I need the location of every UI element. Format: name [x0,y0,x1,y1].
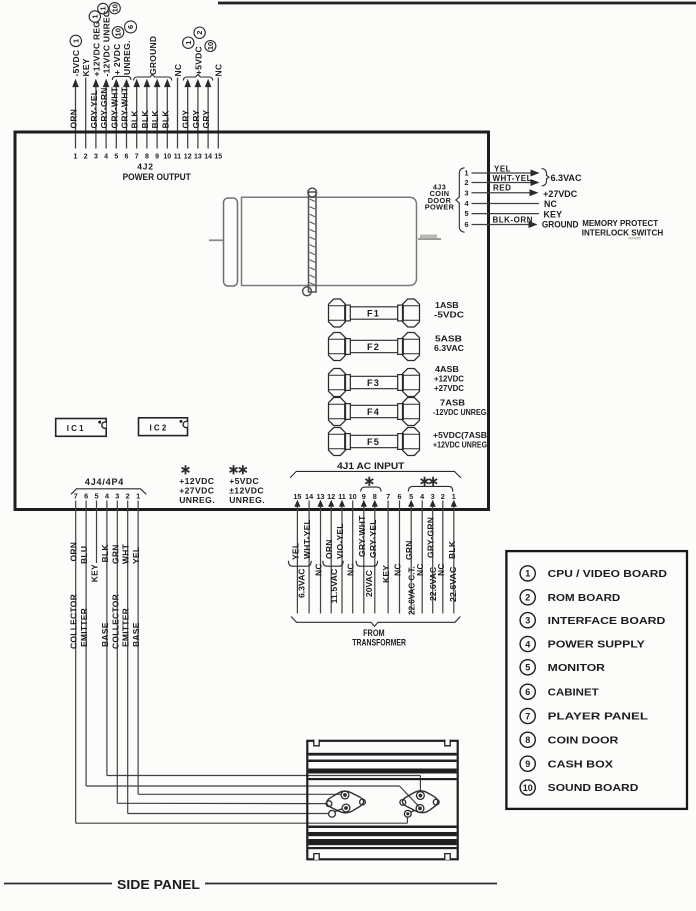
svg-text:5: 5 [525,663,530,673]
wire 4J4 pin 2 WHT EMITTER to Q2 emitter lug [128,813,329,815]
capacitor C1 body [242,197,417,285]
4J4 pin 5 wire vertical [96,501,98,564]
svg-text:9: 9 [155,154,159,161]
svg-text:VIO-YEL: VIO-YEL [335,523,345,559]
svg-text:YEL: YEL [494,164,511,173]
svg-text:GRY-WHT: GRY-WHT [357,515,367,557]
svg-text:NC: NC [415,563,425,576]
svg-text:ORN: ORN [324,539,334,559]
svg-text:BLK: BLK [447,540,457,559]
fuse F4 value label [433,398,488,417]
svg-text:6.3VAC: 6.3VAC [551,173,583,183]
footnote * +12VDC +27VDC UNREG [179,465,215,505]
4J1 pin 9 wire [361,500,367,507]
svg-text:GRY-YEL: GRY-YEL [89,90,99,129]
svg-text:10: 10 [523,783,533,793]
svg-text:NC: NC [393,563,403,576]
svg-text:SIDE PANEL: SIDE PANEL [117,878,200,892]
wire 4J4 pin 3 GRN COLLECTOR to Q2 collector [117,802,326,804]
svg-text:GRY: GRY [181,110,191,129]
4J3 pin 5 wire KEY [472,213,540,215]
4J3 pin 2 wire WHT-YEL [472,182,531,184]
svg-text:1: 1 [464,169,468,178]
power supply enclosure box [15,132,489,510]
transistor Q1 base pin [417,792,425,800]
svg-text:ORN: ORN [69,542,79,562]
connector 4J2 wires and arrows [72,78,218,149]
legend item 7 PLAYER PANEL [520,708,648,723]
legend item 4 POWER SUPPLY [520,636,645,651]
4J4 pin 2 wire vertical [127,501,129,814]
svg-text:+12VDC REG: +12VDC REG [91,21,101,77]
svg-text:14: 14 [204,154,212,161]
svg-text:7: 7 [135,154,139,161]
page top edge rule [218,2,696,5]
svg-text:GRY-YEL: GRY-YEL [368,519,378,558]
4J4 pin 6 wire vertical [85,501,87,787]
svg-text:NC: NC [214,64,224,77]
svg-text:UNREG.: UNREG. [122,40,132,75]
4J1 double star group pins 5-1 [424,477,426,486]
fuse F5 value label [433,430,490,449]
svg-text:4: 4 [420,492,425,501]
4J1 pin 1 wire [451,500,457,507]
svg-text:-12VDC UNREG.: -12VDC UNREG. [433,407,488,417]
svg-text:22.6VAC: 22.6VAC [429,567,438,601]
fuse F1 [329,299,420,327]
svg-text:1: 1 [525,569,530,579]
svg-text:-5VDC: -5VDC [71,50,81,77]
legend item 9 CASH BOX [520,756,613,771]
scan artifact mark right side [628,237,641,239]
svg-text:INTERFACE BOARD: INTERFACE BOARD [548,616,666,627]
svg-text:+27VDC: +27VDC [434,383,464,393]
4J1 6.3VAC bracket pins 15-14 [288,561,311,566]
svg-text:KEY: KEY [544,210,563,220]
4J2 node +5VDC circled 1 [183,37,194,48]
4J4 wire colour labels [69,542,141,582]
svg-text:1: 1 [71,39,80,43]
4J2 bracket pins 12-14 [183,75,212,81]
fuse F3 [329,369,420,397]
svg-text:GROUND: GROUND [148,36,158,75]
svg-text:6: 6 [126,25,135,29]
IC1 box [56,419,106,437]
4J1 pin 14 wire [308,501,310,614]
svg-text:WHT-YEL: WHT-YEL [493,174,533,183]
transistor Q2 emitter lug [329,810,336,817]
svg-text:POWER: POWER [425,203,455,212]
svg-text:BLK: BLK [140,110,150,129]
legend item 2 ROM BOARD [520,590,620,605]
svg-text:INTERLOCK SWITCH: INTERLOCK SWITCH [582,228,664,238]
4J1 wire colour labels [290,515,456,583]
4J1 pin 7 wire [387,501,389,614]
svg-text:2: 2 [195,31,204,35]
4J1 pin numbers 15-1 [293,492,455,501]
footnote ** +5VDC ±12VDC UNREG [229,465,265,505]
svg-text:NC: NC [346,563,356,576]
4J2 node +2VDC circled 10 [112,27,124,39]
svg-text:22.6VAC C.T.: 22.6VAC C.T. [408,566,417,615]
4J1 20VAC bracket pins 9-8 [356,561,378,566]
4J4 transistor function labels [69,594,141,649]
svg-text:+5VDC: +5VDC [193,46,203,75]
4J2 node -12VDC UNREG circled 1 [98,3,109,14]
4J1 pin 11 wire [339,500,345,507]
4J4/4P4 bracket [71,489,146,495]
4J3 pin 6 wire BLK-ORN to GROUND [472,224,529,226]
svg-text:5: 5 [114,154,118,161]
capacitor C1 left lead [209,239,224,241]
svg-text:+27VDC: +27VDC [543,189,578,199]
capacitor C1 right lead [418,238,441,240]
legend item 5 MONITOR [520,660,606,675]
4J2 node +5VDC circled 2 [194,27,205,38]
svg-text:CPU / VIDEO BOARD: CPU / VIDEO BOARD [548,569,667,580]
svg-text:22.6VAC: 22.6VAC [449,566,458,602]
svg-text:SOUND BOARD: SOUND BOARD [548,783,639,794]
4J2 node -12VDC UNREG circled 10 [109,3,120,14]
4J2 node +5VDC circled 10 [205,41,216,52]
svg-text:6.3VAC: 6.3VAC [298,568,307,598]
svg-text:F4: F4 [367,407,380,417]
svg-text:10: 10 [349,492,357,501]
svg-text:COIN DOOR: COIN DOOR [548,735,620,746]
legend box [506,551,687,809]
4J3 6.3VAC bracket and label [542,169,550,187]
svg-text:5: 5 [94,492,98,501]
svg-text:ROM BOARD: ROM BOARD [548,593,621,604]
svg-text:4J2: 4J2 [137,162,154,172]
svg-text:15: 15 [214,154,222,161]
svg-text:YEL: YEL [131,547,141,564]
svg-text:BLK-ORN: BLK-ORN [493,216,533,225]
svg-text:F1: F1 [367,308,380,318]
svg-text:POWER OUTPUT: POWER OUTPUT [123,172,191,182]
svg-text:TRANSFORMER: TRANSFORMER [352,637,406,647]
svg-text:POWER SUPPLY: POWER SUPPLY [548,640,645,651]
svg-text:BLK: BLK [160,110,170,129]
capacitor C1 left end cap [224,198,238,286]
svg-text:1: 1 [74,154,78,161]
svg-text:1: 1 [90,14,99,18]
svg-text:ORN: ORN [69,109,79,129]
svg-text:RED: RED [493,184,511,193]
transistor Q2 base pin [341,791,349,799]
svg-text:KEY: KEY [381,565,391,583]
4J1 pin 5 wire [408,500,414,507]
svg-text:GRY-GRN: GRY-GRN [99,87,109,128]
svg-text:6.3VAC: 6.3VAC [434,343,464,353]
svg-text:4: 4 [525,639,530,649]
fuse F4 [329,398,420,426]
svg-text:YEL: YEL [290,543,300,560]
svg-text:BLU: BLU [79,546,89,564]
svg-text:12: 12 [184,154,192,161]
transistor Q2 flange [327,791,364,813]
4J4 pin 3 wire vertical [116,501,118,804]
wire 4J4 pin 1 YEL BASE to Q2 base [138,793,341,795]
svg-text:COLLECTOR: COLLECTOR [110,594,120,649]
4J1 long bracket [290,471,461,477]
svg-text:20VAC: 20VAC [365,570,374,597]
svg-text:3: 3 [115,492,119,501]
IC2 box [139,418,188,436]
svg-text:GRY-GRN: GRY-GRN [426,517,436,558]
svg-text:NC: NC [544,199,558,209]
svg-text:5: 5 [464,209,468,218]
heat sink body [307,740,457,860]
svg-text:PLAYER PANEL: PLAYER PANEL [548,712,648,723]
4J1 pin 12 wire [328,500,334,507]
4J1 pin 8 wire [372,500,378,507]
svg-text:WHT-YEL: WHT-YEL [302,519,312,559]
svg-text:4J1 AC INPUT: 4J1 AC INPUT [337,461,405,471]
svg-text:BASE: BASE [100,622,110,647]
4J4/4P4 pin numbers 7-1 [74,492,140,501]
svg-text:BLK: BLK [130,110,140,129]
svg-text:F5: F5 [367,437,380,447]
heat sink fins [308,753,456,849]
svg-text:GRN: GRN [110,544,120,564]
legend item 1 CPU / VIDEO BOARD [520,566,667,581]
svg-text:6: 6 [397,492,401,501]
svg-text:GRN: GRN [404,540,414,560]
svg-text:7: 7 [386,492,390,501]
svg-text:BLK: BLK [150,110,160,129]
legend item 3 INTERFACE BOARD [520,613,665,628]
4J1 pin 6 wire [399,501,401,614]
svg-text:WHT: WHT [121,543,131,564]
svg-text:8: 8 [145,154,149,161]
svg-text:4: 4 [464,199,469,208]
transistor Q1 left mounting hole [400,800,406,806]
connector 4J3 name label [425,183,455,212]
svg-text:2: 2 [525,593,530,603]
svg-text:6: 6 [84,492,88,501]
svg-text:+27VDC: +27VDC [179,485,214,495]
svg-text:4: 4 [105,492,110,501]
transistor Q1 right mounting hole [433,799,439,805]
svg-text:IC2: IC2 [150,423,169,432]
4J1 star group pins 9-8 [368,477,370,486]
wire 4J4 pin 4 BLK BASE to Q1 base [107,775,421,777]
svg-text:GRY-WHT: GRY-WHT [109,86,119,128]
svg-text:+12VDC: +12VDC [179,476,214,486]
svg-text:MONITOR: MONITOR [548,663,606,674]
svg-text:-5VDC: -5VDC [434,310,464,320]
4J1 pin 2 wire [442,501,444,614]
svg-text:MEMORY PROTECT: MEMORY PROTECT [582,218,659,228]
svg-text:7: 7 [74,492,78,501]
4J3 pin 3 wire RED [472,192,530,194]
4J1 11.5VAC bracket pins 12-11 [323,561,343,566]
svg-text:KEY: KEY [90,564,100,582]
svg-text:9: 9 [362,492,366,501]
4J2 node +2VDC circled 6 [125,21,137,33]
capacitor C1 mounting clamp [303,188,317,296]
svg-text:BLK: BLK [100,544,110,563]
svg-text:FROM: FROM [363,628,385,638]
svg-text:15: 15 [293,492,301,501]
4J3 pin 4 wire NC [472,203,540,205]
svg-text:6: 6 [464,220,468,229]
transistor Q2 emitter pin [342,804,350,812]
svg-text:1: 1 [452,492,456,501]
4J2 bracket pins 5-6 [112,76,131,80]
4J2 bracket pins 7-10 [134,75,172,81]
fuse F2 value label [434,334,464,353]
4J2 wire colour labels [69,86,212,128]
svg-text:F2: F2 [367,342,380,352]
svg-text:CABINET: CABINET [548,687,599,698]
fuse F2 [329,333,420,361]
svg-text:BASE: BASE [131,622,141,647]
svg-text:KEY: KEY [81,58,91,76]
transistor Q1 emitter pin [416,805,424,813]
4J4 pin 1 wire vertical [137,501,139,795]
svg-text:11: 11 [338,492,346,501]
svg-text:3: 3 [464,188,468,197]
4J3 connector bracket [456,168,465,233]
svg-text:-12VDC UNREG: -12VDC UNREG [102,10,112,76]
svg-text:2: 2 [84,154,88,161]
svg-text:IC1: IC1 [67,424,86,433]
4J2 node -5VDC circled 1 [70,35,81,46]
svg-text:COLLECTOR: COLLECTOR [69,594,79,649]
4J4 pin 4 wire vertical [106,501,108,776]
svg-text:+ 2VDC: + 2VDC [112,44,122,76]
scan artifact mark left of box edge [420,235,437,239]
4J3 pin 1 wire YEL [472,172,531,174]
4J1 pin 15 wire [294,500,300,507]
svg-text:CASH BOX: CASH BOX [548,759,614,770]
4J1 pin 4 wire [421,501,423,614]
svg-text:+5VDC: +5VDC [229,476,259,486]
4J1 voltage labels [298,566,459,615]
fuse F3 value label [434,364,464,393]
svg-text:10: 10 [206,42,215,50]
svg-text:12: 12 [327,492,335,501]
legend item 8 COIN DOOR [520,732,619,747]
4J4 pin 7 wire vertical [75,501,77,824]
svg-text:NC: NC [314,563,324,576]
4J3 pin numbers 1-6 [464,169,469,230]
wire 4J4 pin 6 BLU EMITTER to Q1 emitter [86,785,399,787]
svg-text:4: 4 [104,154,108,161]
svg-text:8: 8 [373,492,377,501]
4J1 pin 3 wire [430,500,436,507]
svg-text:7: 7 [525,711,530,721]
svg-text:6: 6 [125,154,129,161]
4J2 pin numbers 1-15 [74,154,223,161]
svg-text:11: 11 [174,154,182,161]
svg-text:GRY: GRY [201,110,211,129]
transistor Q1 flange [402,791,437,813]
svg-text:2: 2 [126,492,130,501]
svg-text:±12VDC: ±12VDC [229,485,264,495]
svg-text:UNREG.: UNREG. [179,495,215,505]
4J2 node +12VDC REG circled 1 [89,11,100,22]
svg-text:F3: F3 [367,378,380,388]
svg-text:13: 13 [194,154,202,161]
svg-text:9: 9 [525,759,530,769]
svg-text:13: 13 [316,492,324,501]
4J1 pin 13 wire [317,500,323,507]
4J1 pin 10 wire [352,501,354,614]
svg-text:1: 1 [184,41,193,45]
FROM TRANSFORMER bracket [291,617,460,627]
svg-text:2: 2 [441,492,445,501]
svg-text:10: 10 [110,4,119,12]
svg-text:2: 2 [464,178,468,187]
svg-text:3: 3 [94,154,98,161]
svg-text:3: 3 [525,616,530,626]
svg-text:14: 14 [305,492,314,501]
legend item 6 CABINET [520,684,599,699]
svg-text:GROUND: GROUND [542,220,579,230]
svg-text:10: 10 [163,154,171,161]
svg-text:10: 10 [114,28,123,36]
svg-text:6: 6 [525,687,530,697]
svg-text:GRY-WHT: GRY-WHT [120,86,130,128]
svg-text:4J4/4P4: 4J4/4P4 [85,477,124,487]
svg-text:EMITTER: EMITTER [79,608,89,647]
svg-text:GRY: GRY [191,110,201,129]
transistor Q2 left mounting hole [326,801,332,807]
transistor Q2 right mounting hole [360,799,366,805]
legend item 10 SOUND BOARD [520,780,638,795]
fuse F5 [329,428,420,456]
svg-text:8: 8 [525,735,530,745]
svg-text:+12VDC UNREG.: +12VDC UNREG. [433,440,489,450]
fuse F1 value label [434,300,464,319]
svg-text:1: 1 [99,7,108,11]
svg-text:EMITTER: EMITTER [121,608,131,647]
svg-text:NC: NC [173,64,183,77]
svg-text:UNREG.: UNREG. [229,495,265,505]
transistor Q1 collector lug [404,810,411,817]
svg-text:11.5VAC: 11.5VAC [330,568,339,603]
svg-text:1: 1 [136,492,140,501]
wire 4J4 pin 7 ORN COLLECTOR to Q1 collector lug [76,822,408,824]
svg-text:5: 5 [409,492,413,501]
svg-text:3: 3 [431,492,435,501]
SIDE PANEL label with rules [4,883,112,885]
